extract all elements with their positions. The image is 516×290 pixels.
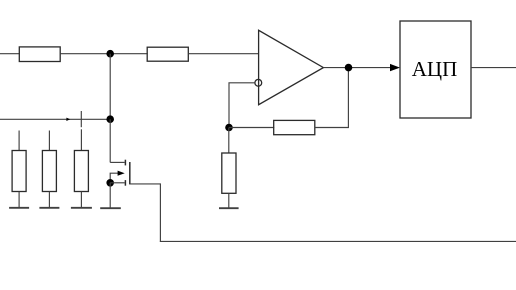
wire bottom bus to right edge (160, 240, 516, 242)
wire Q1 gate to bottom bus (130, 184, 161, 242)
label ADC (412, 57, 458, 81)
node C (junction dot at Q1 source/body) (106, 179, 114, 187)
resistor R1 (19, 47, 60, 62)
wire node B down to transistor drain (109, 119, 111, 162)
resistor R5 (74, 151, 88, 192)
op-amp U1 (259, 30, 324, 104)
resistor R5 top lead (80, 129, 82, 150)
ground under R3 (9, 207, 29, 209)
transistor Q1 source stub (110, 182, 124, 184)
resistor R3 top lead (18, 131, 20, 151)
wire lower-left bus (0, 118, 110, 120)
node B (junction dot on lower bus) (106, 115, 114, 123)
resistor R7 bottom lead (228, 193, 230, 208)
resistor R5 bottom lead (80, 192, 82, 208)
transistor Q1 drain contact bar (124, 160, 126, 166)
wire op-amp output (323, 67, 391, 69)
wire input left to R1 (0, 53, 20, 55)
ground under R7 (219, 207, 239, 209)
node D (junction dot at inverting net) (225, 124, 233, 132)
ground under R4 (39, 207, 59, 209)
transistor Q1 body stub with arrow (110, 171, 125, 183)
wire inverting input to node D (229, 83, 255, 128)
node E (junction dot on output) (345, 64, 353, 72)
tick mark crossing lower-left bus (80, 111, 82, 127)
arrowhead into ADC (390, 64, 400, 71)
node A (junction dot on top wire) (106, 50, 114, 58)
resistor R4 top lead (48, 131, 50, 151)
block U2 ADC box (400, 21, 471, 118)
ground under Q1 (100, 207, 121, 209)
svg-text:АЦП: АЦП (412, 57, 458, 81)
wire ADC output to right edge (471, 67, 516, 69)
wire R2 to op-amp noninverting input (188, 53, 258, 55)
small arrow mark on lower-left bus (66, 118, 70, 121)
resistor R4 (42, 151, 56, 192)
transistor Q1 gate bar (129, 162, 131, 184)
resistor R3 (12, 151, 26, 192)
resistor R2 (147, 47, 188, 61)
wire R1 to R2 (60, 53, 148, 55)
wire R6 to output node (315, 68, 349, 128)
wire node A down to node B (109, 54, 111, 120)
resistor R3 bottom lead (18, 192, 20, 208)
resistor R4 bottom lead (48, 192, 50, 208)
wire node D to R6 (229, 127, 274, 129)
transistor Q1 drain stub (110, 161, 124, 163)
ground under R5 (71, 207, 92, 209)
transistor Q1 source contact bar (124, 180, 126, 186)
resistor R7 (222, 153, 236, 193)
resistor R6 (feedback) (274, 120, 315, 134)
wire node C to ground (109, 183, 111, 208)
wire R7 top lead from node D (228, 128, 230, 154)
op-amp U1 inverting input bubble (255, 79, 262, 86)
